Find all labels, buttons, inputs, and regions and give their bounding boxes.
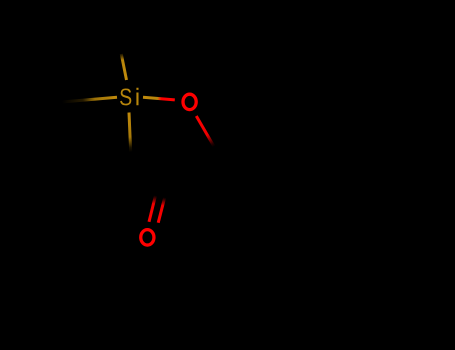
bond Si-CH3 down — [129, 113, 131, 153]
bond O-C — [196, 116, 214, 147]
atom label Si — [120, 88, 131, 105]
bond Si-CH3 left — [62, 97, 117, 102]
double bond C=O line 2 — [158, 198, 165, 223]
double bond C=O line 1 — [149, 196, 156, 222]
atom label O (carbonyl) — [141, 230, 154, 245]
atom label O (ether) — [183, 94, 196, 109]
bond Si-O — [143, 97, 175, 100]
bond Si-CH3 up — [121, 54, 126, 80]
